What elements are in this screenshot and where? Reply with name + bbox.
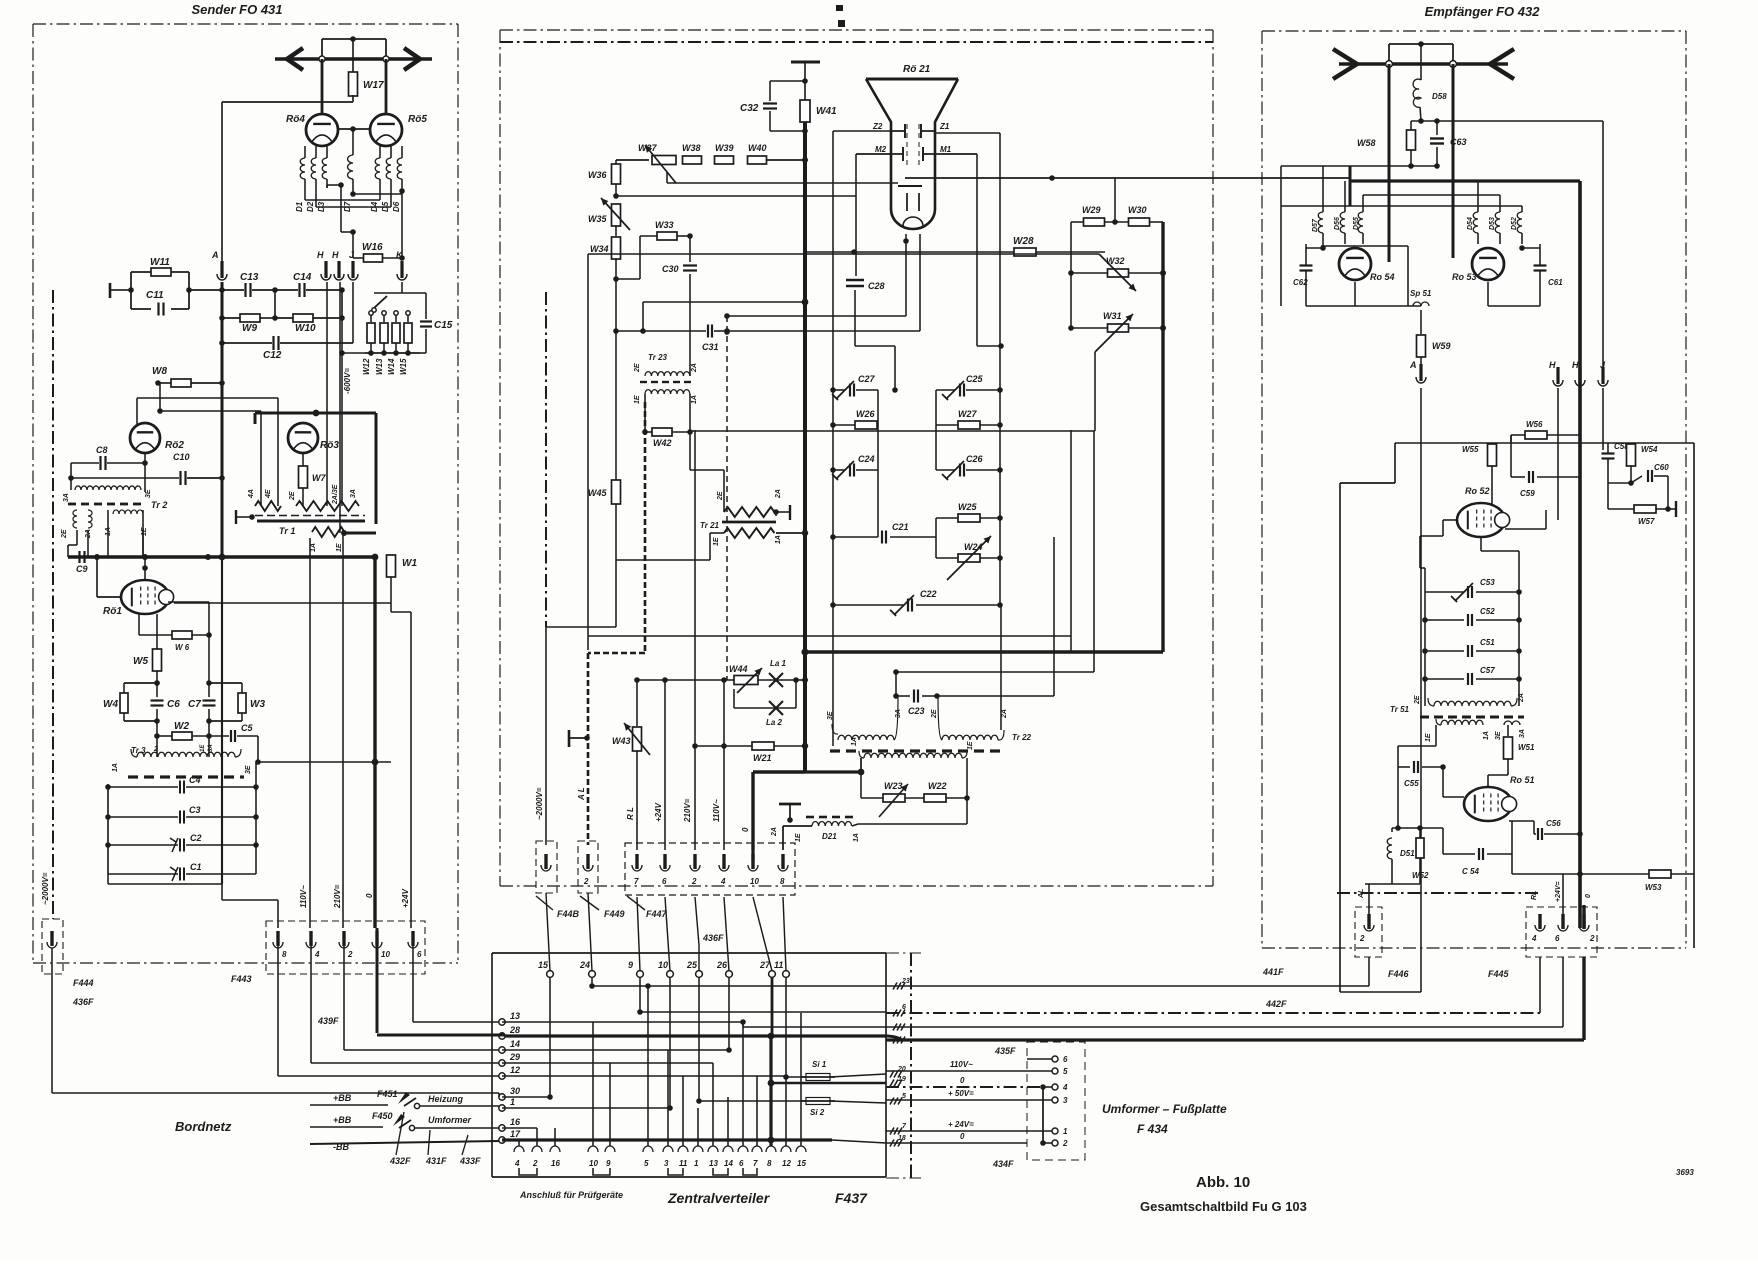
svg-text:H: H bbox=[317, 250, 324, 260]
ZV row 28 thick bbox=[377, 1034, 505, 1037]
svg-text:W45: W45 bbox=[588, 488, 608, 498]
wire Tr3 tap to bus right bbox=[257, 736, 259, 762]
svg-text:8: 8 bbox=[767, 1159, 772, 1168]
coil D58 bbox=[1420, 44, 1422, 80]
svg-text:Umformer – Fußplatte: Umformer – Fußplatte bbox=[1102, 1102, 1227, 1116]
ground D21 bbox=[779, 803, 801, 806]
svg-text:110V~: 110V~ bbox=[950, 1060, 973, 1069]
wire Z1 right down bbox=[935, 132, 1000, 134]
svg-text:F451: F451 bbox=[377, 1089, 398, 1099]
wire W11 to A bbox=[189, 289, 222, 291]
wire 2000V path bbox=[546, 626, 616, 628]
svg-text:W25: W25 bbox=[958, 502, 978, 512]
svg-text:Sp 51: Sp 51 bbox=[1410, 289, 1432, 298]
resistor W36 bbox=[612, 164, 621, 184]
svg-text:15: 15 bbox=[538, 960, 549, 970]
resistor W10 bbox=[272, 315, 278, 321]
parallel C7 W3 bbox=[206, 680, 212, 686]
triode Ro4 bbox=[306, 114, 338, 146]
wire pin4 riser bbox=[723, 680, 725, 850]
svg-text:1A: 1A bbox=[853, 833, 860, 842]
svg-text:W53: W53 bbox=[1645, 883, 1662, 892]
svg-text:4: 4 bbox=[1062, 1083, 1068, 1092]
svg-text:C27: C27 bbox=[858, 374, 876, 384]
connector F445 bbox=[1526, 907, 1597, 957]
capacitor ladder C53 bbox=[1425, 591, 1464, 593]
svg-text:+24V: +24V bbox=[401, 888, 410, 908]
svg-text:Si 1: Si 1 bbox=[812, 1060, 827, 1069]
capacitor C3 bbox=[108, 816, 178, 818]
svg-text:F445: F445 bbox=[1488, 969, 1510, 979]
svg-text:W13: W13 bbox=[375, 358, 384, 375]
svg-text:W57: W57 bbox=[1638, 517, 1655, 526]
svg-text:16: 16 bbox=[510, 1117, 521, 1127]
Empfaenger enclosure box bbox=[1262, 30, 1686, 32]
row 316 to tube lead bbox=[727, 315, 906, 317]
svg-text:C30: C30 bbox=[662, 264, 679, 274]
antenna Sender bbox=[275, 57, 432, 60]
svg-text:C63: C63 bbox=[1450, 137, 1467, 147]
Tr51 secondary bbox=[1436, 719, 1441, 725]
node at H lines bbox=[339, 287, 345, 293]
wire ground to W11 bbox=[119, 289, 131, 291]
svg-text:2: 2 bbox=[532, 1159, 538, 1168]
coils D57 D56 D55 bbox=[1322, 166, 1324, 212]
svg-text:4: 4 bbox=[1531, 934, 1537, 943]
node row C31 bbox=[613, 328, 619, 334]
svg-text:W38: W38 bbox=[682, 143, 701, 153]
wire F443 pin10 thick bbox=[376, 928, 379, 945]
svg-text:3E: 3E bbox=[1495, 731, 1502, 740]
row 636 bbox=[588, 635, 1071, 637]
svg-text:Umformer: Umformer bbox=[428, 1115, 472, 1125]
svg-text:4: 4 bbox=[514, 1159, 520, 1168]
cable riser 727 dashed bbox=[726, 316, 728, 680]
transformer Tr2 primary bbox=[75, 486, 141, 490]
resistor W51 bbox=[1507, 725, 1509, 736]
svg-text:2E: 2E bbox=[717, 491, 724, 501]
svg-text:23: 23 bbox=[901, 978, 910, 985]
wires Ro51 bbox=[1442, 767, 1444, 797]
transformer Tr22 winding 2 bbox=[938, 696, 942, 740]
svg-text:1: 1 bbox=[694, 1159, 699, 1168]
svg-text:~2000V=: ~2000V= bbox=[535, 787, 544, 820]
svg-text:Ro 53: Ro 53 bbox=[1452, 272, 1477, 282]
Tr21 core bbox=[722, 521, 776, 524]
svg-text:9: 9 bbox=[606, 1159, 611, 1168]
svg-text:1E: 1E bbox=[795, 833, 802, 842]
svg-text:1A: 1A bbox=[851, 737, 858, 746]
svg-text:Ro 54: Ro 54 bbox=[1370, 272, 1395, 282]
svg-text:C23: C23 bbox=[908, 706, 925, 716]
wire bus down to F443 bbox=[221, 557, 223, 884]
lamp box W44 La1 La2 bbox=[637, 679, 734, 681]
capacitor C61 bbox=[1534, 264, 1547, 266]
ground Tr1 bbox=[235, 510, 237, 524]
pentode Ro51 bbox=[1464, 787, 1512, 821]
resistor W32 variable bbox=[1068, 270, 1074, 276]
svg-text:F437: F437 bbox=[835, 1190, 868, 1206]
svg-text:110V~: 110V~ bbox=[712, 799, 721, 822]
resistor W45 bbox=[612, 480, 621, 504]
resistor W9 bbox=[222, 317, 240, 319]
wire Z-box left bbox=[833, 130, 891, 132]
row 834 dot bbox=[1577, 831, 1583, 837]
svg-text:Z1: Z1 bbox=[939, 122, 950, 131]
svg-text:W39: W39 bbox=[715, 143, 734, 153]
svg-text:W17: W17 bbox=[363, 80, 384, 91]
svg-text:27: 27 bbox=[759, 960, 771, 970]
svg-text:W31: W31 bbox=[1103, 311, 1122, 321]
capacitor C55 bbox=[1435, 725, 1437, 746]
resistor W1 bbox=[388, 554, 394, 560]
transformer Tr22 secondary bbox=[859, 751, 864, 758]
resistor W54 bbox=[1627, 444, 1636, 466]
heater winding 4A 4E bbox=[255, 501, 281, 511]
ground Tr21 bbox=[789, 505, 791, 520]
wire -600V rail bbox=[339, 350, 345, 356]
transformer Tr3 winding bbox=[156, 736, 158, 757]
svg-text:3E: 3E bbox=[245, 765, 252, 774]
svg-text:29: 29 bbox=[509, 1052, 520, 1062]
svg-text:D52: D52 bbox=[1511, 217, 1518, 230]
parallel W4 C6 bbox=[124, 682, 157, 684]
svg-text:Heizung: Heizung bbox=[428, 1094, 464, 1104]
capacitor C4 bbox=[108, 786, 178, 788]
svg-text:1E: 1E bbox=[141, 527, 148, 536]
resistor W11 parallel C11 box bbox=[130, 272, 132, 309]
ZV bottom pins bbox=[514, 1146, 524, 1152]
capacitor C58 bbox=[1602, 443, 1604, 450]
svg-text:+ 50V=: + 50V= bbox=[948, 1089, 974, 1098]
svg-text:Ro 52: Ro 52 bbox=[1465, 486, 1490, 496]
wire grid link Ro4-Ro5 bbox=[338, 128, 370, 130]
svg-text:W51: W51 bbox=[1518, 743, 1535, 752]
svg-text:110V~: 110V~ bbox=[299, 885, 308, 908]
svg-text:C62: C62 bbox=[1293, 278, 1308, 287]
svg-text:C59: C59 bbox=[1520, 489, 1535, 498]
svg-text:14: 14 bbox=[510, 1039, 520, 1049]
wire J down to C12 row bbox=[352, 282, 354, 343]
svg-text:8: 8 bbox=[780, 877, 785, 886]
svg-text:W54: W54 bbox=[1641, 445, 1658, 454]
cathode row right bbox=[1487, 282, 1489, 306]
antenna feed box bbox=[322, 38, 386, 40]
thick feed right bbox=[805, 650, 1163, 653]
svg-text:C57: C57 bbox=[1480, 666, 1495, 675]
svg-text:3A: 3A bbox=[208, 744, 214, 752]
transformer Tr21 lower bbox=[724, 528, 774, 538]
coil return wire Ro54 bbox=[1321, 245, 1408, 247]
tube bottom leads bbox=[905, 234, 907, 316]
wire M2 left down bbox=[855, 154, 857, 276]
svg-text:D6: D6 bbox=[392, 201, 401, 212]
resistor W25 bbox=[936, 517, 958, 519]
long bottom bus left bbox=[51, 947, 53, 949]
svg-text:3A: 3A bbox=[350, 489, 357, 498]
ground top middle bbox=[791, 61, 820, 64]
capacitor C26 variable bbox=[936, 469, 955, 471]
wire Tr3 left leg bbox=[107, 874, 109, 884]
svg-text:7: 7 bbox=[634, 877, 639, 886]
transformer Tr51 top bbox=[1428, 698, 1434, 706]
svg-text:W24: W24 bbox=[964, 542, 983, 552]
svg-text:C53: C53 bbox=[1480, 578, 1495, 587]
antenna receiver bbox=[1339, 62, 1508, 65]
svg-text:W12: W12 bbox=[362, 358, 371, 375]
svg-text:8: 8 bbox=[282, 950, 287, 959]
svg-text:+24V=: +24V= bbox=[1555, 881, 1562, 902]
svg-text:A: A bbox=[1409, 360, 1417, 370]
capacitor C62 bbox=[1300, 264, 1313, 266]
svg-text:3A: 3A bbox=[63, 493, 70, 502]
resistor W57 bbox=[1607, 483, 1609, 509]
svg-text:3E: 3E bbox=[827, 711, 834, 720]
svg-text:Rö4: Rö4 bbox=[286, 114, 305, 125]
ZV row 12 bbox=[502, 1075, 786, 1077]
main bus wire A down bbox=[221, 282, 224, 558]
svg-text:W22: W22 bbox=[928, 781, 947, 791]
capacitor C1 variable bbox=[108, 873, 178, 875]
svg-text:436F: 436F bbox=[702, 933, 724, 943]
ground W57 bbox=[1668, 508, 1676, 510]
wire 588 cable AL bbox=[587, 254, 589, 650]
svg-text:F44B: F44B bbox=[557, 909, 580, 919]
coil D21 bbox=[806, 816, 814, 819]
row under C63 bbox=[1281, 165, 1437, 167]
svg-text:1E: 1E bbox=[200, 744, 206, 752]
ground left bbox=[109, 283, 112, 298]
tube Ro21 funnel bbox=[866, 78, 958, 81]
wire W6 node down bbox=[208, 602, 210, 683]
ZV row 14 bbox=[502, 1049, 729, 1051]
svg-text:C21: C21 bbox=[892, 522, 909, 532]
svg-text:C10: C10 bbox=[173, 452, 190, 462]
wires Tr2 secondary down bbox=[76, 530, 78, 545]
svg-text:C13: C13 bbox=[240, 272, 259, 283]
svg-text:C60: C60 bbox=[1654, 463, 1669, 472]
svg-text:RL: RL bbox=[1531, 891, 1538, 900]
svg-text:11: 11 bbox=[679, 1159, 688, 1168]
svg-text:2: 2 bbox=[1062, 1139, 1068, 1148]
thick riser W30 bbox=[1161, 222, 1164, 652]
svg-text:Zentralverteiler: Zentralverteiler bbox=[667, 1190, 771, 1206]
Tr51 core bbox=[1420, 716, 1429, 719]
svg-text:W8: W8 bbox=[152, 366, 167, 377]
svg-text:C4: C4 bbox=[189, 775, 201, 785]
svg-text:439F: 439F bbox=[317, 1016, 339, 1026]
capacitor C63 bbox=[1411, 120, 1437, 122]
connector F434 Umformer bbox=[1027, 1042, 1085, 1160]
wire matrix risers down bbox=[877, 470, 879, 537]
terminal A receiver bbox=[1416, 377, 1426, 383]
bottom cable rows right bbox=[886, 985, 1369, 987]
svg-text:C5: C5 bbox=[241, 723, 253, 733]
wire left rail down bbox=[615, 331, 617, 480]
svg-text:W1: W1 bbox=[402, 558, 417, 569]
svg-text:10: 10 bbox=[658, 960, 668, 970]
ZV row 13 bbox=[502, 1021, 743, 1023]
svg-text:Rö1: Rö1 bbox=[103, 606, 122, 617]
resistor W27 bbox=[958, 421, 980, 429]
svg-text:H: H bbox=[1549, 360, 1556, 370]
svg-text:0: 0 bbox=[365, 893, 374, 898]
svg-text:2A: 2A bbox=[775, 489, 782, 499]
svg-text:4E: 4E bbox=[265, 489, 272, 499]
svg-text:431F: 431F bbox=[425, 1156, 447, 1166]
capacitor C28 bbox=[846, 279, 864, 282]
hatch marks right rows bbox=[893, 983, 897, 990]
registration marks top bbox=[836, 5, 843, 11]
svg-text:5: 5 bbox=[1063, 1067, 1068, 1076]
resistors W23 W22 bbox=[860, 772, 862, 798]
resistor W58 bbox=[1410, 121, 1412, 131]
svg-text:2A: 2A bbox=[771, 827, 778, 837]
top grid row wires bbox=[1363, 194, 1500, 196]
resistor W35 variable bbox=[612, 204, 621, 226]
capacitor C24 variable bbox=[830, 467, 836, 473]
antenna top link bbox=[1389, 43, 1453, 45]
wire Ro52 to ladder bbox=[1518, 551, 1520, 592]
svg-text:13: 13 bbox=[709, 1159, 718, 1168]
vertical feeds to connector F443 bbox=[309, 538, 311, 928]
svg-text:W52: W52 bbox=[1412, 871, 1429, 880]
svg-text:W55: W55 bbox=[1462, 445, 1479, 454]
svg-text:W26: W26 bbox=[856, 409, 876, 419]
resistor W24 variable bbox=[958, 554, 980, 562]
svg-text:11: 11 bbox=[774, 960, 783, 970]
ZV top pins bbox=[547, 971, 554, 978]
svg-text:436F: 436F bbox=[72, 997, 94, 1007]
svg-text:D2: D2 bbox=[306, 201, 315, 212]
svg-text:W42: W42 bbox=[653, 438, 672, 448]
svg-text:1A: 1A bbox=[775, 535, 782, 544]
svg-text:W27: W27 bbox=[958, 409, 978, 419]
wires Ro52 bbox=[1443, 519, 1457, 521]
wires to bottom right bbox=[1368, 957, 1370, 986]
svg-text:C2: C2 bbox=[190, 833, 202, 843]
svg-text:H: H bbox=[1572, 360, 1579, 370]
capacitor C59 bbox=[1510, 435, 1512, 477]
svg-text:W41: W41 bbox=[816, 106, 837, 117]
Heizung circuit bbox=[310, 1104, 388, 1106]
svg-text:F449: F449 bbox=[604, 909, 625, 919]
svg-text:C3: C3 bbox=[189, 805, 201, 815]
capacitor C12 bbox=[222, 342, 272, 344]
svg-text:Abb. 10: Abb. 10 bbox=[1196, 1174, 1250, 1191]
capacitor C57 bbox=[1425, 678, 1464, 680]
svg-text:C31: C31 bbox=[702, 342, 719, 352]
svg-text:D54: D54 bbox=[1467, 217, 1474, 230]
ZV row 29 bbox=[502, 1062, 713, 1064]
wire top row receiver lower bbox=[1395, 442, 1694, 444]
svg-text:C24: C24 bbox=[858, 454, 875, 464]
svg-text:C25: C25 bbox=[966, 374, 984, 384]
vertical cable 2000V bbox=[545, 292, 547, 627]
Zentralverteiler box bbox=[492, 952, 886, 954]
resistor W6 bbox=[139, 634, 172, 636]
svg-text:D55: D55 bbox=[1353, 217, 1360, 230]
resistors W29 W30 bbox=[1071, 221, 1084, 223]
svg-text:La 2: La 2 bbox=[766, 718, 783, 727]
svg-text:2E: 2E bbox=[931, 709, 938, 719]
svg-text:1E: 1E bbox=[713, 537, 720, 546]
connector F447 bbox=[625, 843, 795, 895]
coil Sp51 bbox=[1413, 302, 1429, 306]
capacitor C32 bbox=[770, 80, 805, 82]
svg-text:3A: 3A bbox=[895, 709, 902, 718]
triode Ro54 bbox=[1339, 248, 1371, 280]
jog row to bus bbox=[640, 328, 646, 334]
svg-text:2: 2 bbox=[347, 950, 353, 959]
capacitor C51 bbox=[1425, 650, 1464, 652]
svg-text:2A: 2A bbox=[691, 363, 698, 373]
svg-text:AL: AL bbox=[1358, 889, 1365, 899]
wire M1 right down bbox=[976, 154, 978, 346]
svg-text:C9: C9 bbox=[76, 564, 88, 574]
svg-text:W10: W10 bbox=[295, 323, 316, 334]
svg-text:W23: W23 bbox=[884, 781, 903, 791]
svg-text:16: 16 bbox=[551, 1159, 560, 1168]
svg-text:W34: W34 bbox=[590, 244, 609, 254]
wiper W31 wire bbox=[1094, 352, 1096, 431]
svg-text:Z2: Z2 bbox=[872, 122, 883, 131]
pentode Ro1 bbox=[121, 580, 169, 614]
svg-text:F443: F443 bbox=[231, 974, 252, 984]
wire pin6 riser bbox=[664, 680, 666, 850]
svg-text:C11: C11 bbox=[146, 290, 164, 301]
transformer Tr2 secondary bbox=[73, 510, 77, 528]
capacitor C13 bbox=[222, 289, 244, 291]
svg-text:W59: W59 bbox=[1432, 341, 1451, 351]
Umformer circuit bbox=[310, 1126, 383, 1128]
wire W1 to Ro1 grid bbox=[390, 586, 392, 603]
inner box receiver bbox=[1339, 483, 1341, 992]
svg-text:1A: 1A bbox=[1483, 731, 1490, 740]
svg-text:C14: C14 bbox=[293, 272, 312, 283]
svg-text:D53: D53 bbox=[1489, 217, 1496, 230]
main HT bus thick bbox=[803, 122, 807, 772]
svg-text:4: 4 bbox=[720, 877, 726, 886]
svg-text:W28: W28 bbox=[1013, 236, 1034, 247]
anode feed Ro3 thick bbox=[255, 412, 376, 415]
capacitor C2 variable bbox=[108, 844, 178, 846]
svg-text:1E: 1E bbox=[336, 543, 343, 552]
wire W29 left rail bbox=[1070, 222, 1072, 328]
wire W17 to A line bbox=[222, 101, 353, 103]
ZV row 16 bbox=[502, 1127, 537, 1129]
svg-text:W56: W56 bbox=[1526, 420, 1543, 429]
svg-text:F446: F446 bbox=[1388, 969, 1410, 979]
coil interconnect wires bbox=[304, 188, 306, 200]
middle enclosure box bbox=[500, 29, 1213, 31]
svg-text:M2: M2 bbox=[875, 145, 887, 154]
svg-text:3A: 3A bbox=[1519, 729, 1526, 738]
resistor chain W37 W38 W39 W40 bbox=[616, 159, 649, 161]
wire anode row to receiver bbox=[805, 251, 1015, 253]
cable 2000V dash-dot bbox=[52, 290, 54, 919]
hatch marks ZV exits bbox=[890, 1071, 894, 1078]
wire M-row bbox=[616, 195, 856, 197]
svg-text:W44: W44 bbox=[729, 664, 748, 674]
svg-text:W3: W3 bbox=[250, 699, 265, 710]
svg-text:W16: W16 bbox=[362, 242, 383, 253]
svg-text:6: 6 bbox=[1555, 934, 1560, 943]
thick receiver bus vertical bbox=[1578, 181, 1582, 928]
capacitor C31 bbox=[707, 325, 709, 338]
wire antenna to Ro4 bbox=[321, 59, 324, 122]
long row 431 bbox=[690, 430, 1095, 432]
